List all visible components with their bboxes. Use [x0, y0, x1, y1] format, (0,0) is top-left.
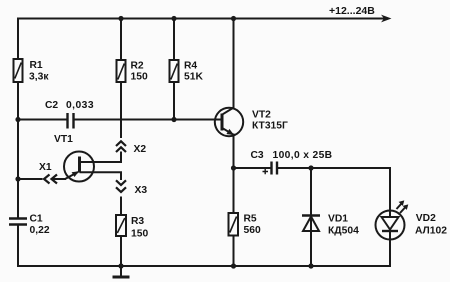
transistor VT2	[215, 108, 288, 137]
resistor R4	[170, 60, 204, 83]
svg-text:R5: R5	[244, 214, 257, 225]
wire left vertical below C1	[17, 225, 19, 267]
svg-text:АЛ102: АЛ102	[415, 226, 447, 237]
capacitor C3	[251, 150, 333, 175]
resistor R1	[14, 59, 50, 83]
transistor VT1 (unijunction)	[54, 134, 94, 182]
svg-text:0,22: 0,22	[30, 225, 50, 236]
connector X2	[116, 141, 146, 155]
svg-text:0,033: 0,033	[66, 100, 94, 111]
connector X1	[39, 162, 57, 184]
wire R4 bottom to node	[173, 82, 175, 120]
wire R5 bottom	[233, 236, 235, 267]
node dot C3 left	[231, 165, 236, 170]
resistor R2	[117, 60, 148, 83]
svg-text:X3: X3	[135, 185, 148, 196]
wire X3 to R3	[120, 197, 122, 216]
wire R3 bottom to rail	[120, 236, 122, 266]
wire C2 row right to VT2 base	[74, 119, 221, 121]
wire VT1 base1 lead to X3	[80, 172, 122, 180]
resistor R3	[116, 215, 148, 240]
wire C3 row right	[278, 167, 391, 169]
wire X1 right segment to VT1 emitter	[52, 178, 67, 180]
svg-text:51K: 51K	[184, 72, 203, 83]
node dot X1 left	[15, 176, 20, 181]
svg-text:560: 560	[244, 225, 261, 236]
svg-text:VD2: VD2	[416, 213, 436, 224]
wire R2 branch top	[120, 19, 122, 61]
svg-text:C3: C3	[251, 150, 264, 161]
wire bottom rail	[17, 265, 390, 267]
capacitor C2	[45, 100, 94, 129]
svg-text:КД504: КД504	[328, 226, 359, 237]
wire R4 branch top	[173, 19, 175, 61]
connector X3	[116, 180, 147, 196]
wire VD2 branch top	[389, 167, 391, 217]
svg-text:R1: R1	[30, 60, 43, 71]
wire VT1 base2 lead to X2	[80, 152, 122, 163]
svg-text:C1: C1	[30, 214, 43, 225]
node dot rail-R4	[171, 16, 176, 21]
node dot rail-VD1	[308, 263, 313, 268]
svg-text:КТ315Г: КТ315Г	[252, 121, 288, 132]
wire R2 bottom to X2	[120, 82, 122, 138]
wire top rail +V	[18, 18, 384, 20]
wire C2 row left	[18, 119, 67, 121]
svg-text:3,3к: 3,3к	[29, 72, 49, 83]
wire VD1 branch top	[310, 168, 312, 266]
node dot rail-R5	[231, 263, 236, 268]
svg-text:R4: R4	[184, 61, 197, 72]
svg-text:C2: C2	[45, 100, 58, 111]
svg-text:X2: X2	[134, 144, 147, 155]
svg-text:VT2: VT2	[252, 110, 271, 121]
power arrow tip	[381, 15, 392, 23]
svg-text:R2: R2	[131, 61, 144, 72]
svg-text:+12...24В: +12...24В	[329, 5, 375, 17]
node dot R4-C2 wire	[171, 117, 176, 122]
svg-text:R3: R3	[131, 216, 144, 227]
node dot rail-R2	[118, 16, 123, 21]
svg-text:100,0 x 25В: 100,0 x 25В	[273, 150, 333, 161]
svg-text:VD1: VD1	[328, 214, 348, 225]
LED VD2	[376, 200, 448, 239]
svg-text:150: 150	[131, 229, 148, 240]
wire VT2 emitter down	[233, 134, 235, 169]
wire C3 row left	[234, 167, 271, 169]
svg-text:X1: X1	[39, 162, 52, 173]
diode VD1	[302, 214, 359, 237]
resistor R5	[229, 213, 261, 236]
node dot C2 left	[15, 117, 20, 122]
svg-text:VT1: VT1	[54, 134, 73, 145]
ground	[113, 266, 130, 277]
wire VT2 collector from rail	[233, 19, 235, 109]
node dot rail-VT2	[231, 16, 236, 21]
wire R5 branch	[233, 168, 235, 213]
wire VD2 branch bottom	[389, 231, 391, 267]
node dot rail-ground	[118, 263, 123, 268]
node dot C3-VD1	[308, 165, 313, 170]
capacitor C1	[9, 214, 50, 237]
wire left vertical (R1/C1 branch)	[17, 18, 19, 219]
svg-text:150: 150	[131, 72, 148, 83]
wire X1 left segment	[18, 178, 43, 180]
